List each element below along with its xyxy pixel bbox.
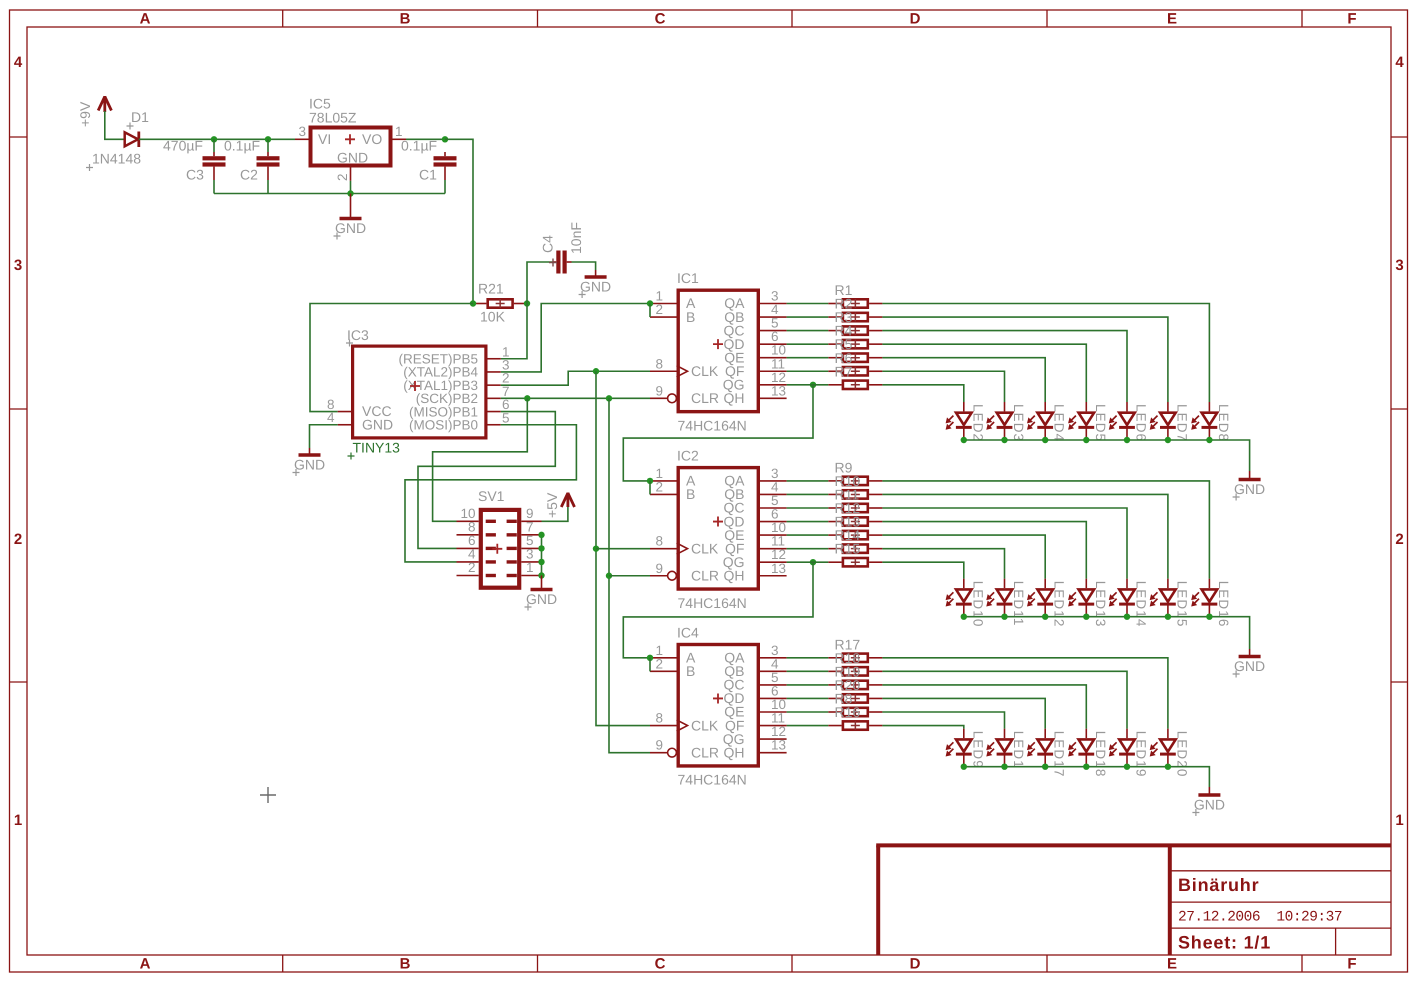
wire LED row1 cathode bus (964, 440, 1250, 471)
junction IC1 QG (810, 382, 816, 388)
svg-text:LED8: LED8 (1216, 404, 1231, 442)
wire R to LED row3 (882, 712, 1004, 729)
svg-text:10K: 10K (480, 309, 506, 325)
svg-text:2: 2 (335, 173, 350, 181)
wire Q to R (787, 711, 829, 713)
junction LED bus2 (1165, 614, 1171, 620)
junction SV1 rail (538, 559, 544, 565)
wire PB2 to IC1 CLR (501, 397, 650, 399)
svg-text:IC3: IC3 (347, 327, 369, 343)
svg-text:(MOSI)PB0: (MOSI)PB0 (409, 417, 478, 432)
svg-text:QH: QH (724, 390, 745, 406)
frame column labels top (140, 11, 1357, 28)
svg-text:C3: C3 (186, 167, 204, 183)
wire C3 to gnd bus (213, 180, 215, 194)
wire +5V rail down to R21 (445, 139, 473, 303)
wire Q to R (787, 657, 829, 659)
resistor R17 (828, 653, 882, 662)
svg-text:2: 2 (655, 656, 663, 671)
wire Q to R (787, 343, 829, 345)
wire C2 to gnd bus (267, 180, 269, 194)
svg-text:GND: GND (580, 279, 611, 295)
wire PB2 to SV1 pin10 (433, 398, 528, 521)
resistor R10 (828, 490, 882, 499)
svg-text:13: 13 (771, 561, 786, 576)
wire CLK to IC2 (596, 548, 650, 550)
svg-text:CLK: CLK (691, 363, 719, 379)
regulator IC5 78L05Z (295, 96, 406, 182)
svg-text:LED7: LED7 (1174, 404, 1189, 442)
svg-text:F: F (1347, 11, 1356, 28)
svg-text:E: E (1167, 956, 1177, 973)
svg-text:TINY13: TINY13 (353, 440, 401, 456)
wire R to LED row1 (882, 344, 1086, 402)
wire R to LED row1 (882, 385, 963, 402)
wire R to LED row2 (882, 522, 1086, 579)
svg-text:GND: GND (294, 457, 325, 473)
frame row labels right (1395, 54, 1404, 829)
svg-text:2: 2 (655, 479, 663, 494)
capacitor C1 (401, 138, 457, 183)
wire R to LED row3 (882, 658, 1168, 729)
svg-text:LED9: LED9 (970, 731, 985, 769)
junction LED bus2 (1042, 614, 1048, 620)
wire Q to R (787, 670, 829, 672)
wire CLK bus (596, 371, 650, 725)
resistor R12 (828, 517, 882, 526)
resistor R13 (828, 531, 882, 540)
capacitor C3 (163, 138, 226, 183)
ground LED row1 (1233, 471, 1266, 501)
svg-text:F: F (1347, 956, 1356, 973)
LED LED3 (986, 402, 1026, 442)
junction IC4 A (647, 655, 653, 661)
junction SV1 rail (538, 572, 544, 578)
junction LED bus1 (1042, 437, 1048, 443)
LED LED1 (986, 729, 1026, 769)
svg-text:LED19: LED19 (1134, 731, 1149, 778)
junction PB2 branch (524, 395, 530, 401)
resistor R1 (828, 299, 882, 308)
svg-text:CLR: CLR (691, 744, 719, 760)
svg-text:74HC164N: 74HC164N (678, 772, 747, 788)
wire D1 to IC5 VI (139, 138, 295, 140)
labels R17 group (835, 636, 861, 720)
junction CLR IC2 (606, 573, 612, 579)
ground LED row2 (1233, 649, 1266, 678)
svg-text:E: E (1167, 11, 1177, 28)
svg-text:Binäruhr: Binäruhr (1178, 875, 1259, 895)
svg-text:GND: GND (526, 591, 557, 607)
junction LED bus1 (1001, 437, 1007, 443)
svg-text:R21: R21 (478, 281, 504, 297)
wire R to LED row2 (882, 549, 1004, 579)
wire R to LED row3 (882, 698, 1045, 728)
LED LED8 (1191, 402, 1231, 442)
svg-text:+5V: +5V (544, 492, 560, 518)
junction LED bus2 (1124, 614, 1130, 620)
svg-text:A: A (140, 956, 151, 973)
LED LED7 (1150, 402, 1190, 442)
svg-text:GND: GND (337, 150, 368, 166)
svg-text:B: B (400, 956, 411, 973)
resistor R15 (828, 558, 882, 567)
wire R21 to C4 (527, 262, 552, 304)
svg-text:LED2: LED2 (970, 404, 985, 442)
svg-text:74HC164N: 74HC164N (678, 595, 747, 611)
LED LED5 (1068, 402, 1108, 442)
resistor R8 (828, 708, 882, 717)
wire Q to R (787, 561, 829, 563)
wire R to LED row3 (882, 685, 1086, 729)
wire R to LED row1 (882, 358, 1045, 402)
svg-text:LED11: LED11 (1011, 581, 1026, 627)
frame column labels bottom (140, 956, 1357, 973)
wire C4 to gnd (572, 262, 596, 270)
svg-text:D: D (910, 956, 921, 973)
wire R to LED row1 (882, 304, 1209, 403)
wire Q to R (787, 521, 829, 523)
svg-text:9: 9 (655, 738, 663, 753)
sheet origin cross (260, 787, 276, 803)
wire PB1 to SV1 pin6 (418, 412, 555, 549)
LED LED11 (986, 579, 1026, 627)
wire Q to R (787, 357, 829, 359)
resistor R20 (828, 694, 882, 703)
svg-text:1: 1 (1395, 812, 1403, 829)
svg-text:3: 3 (14, 257, 22, 274)
svg-text:4: 4 (1395, 54, 1404, 71)
junction LED bus2 (1083, 614, 1089, 620)
wire PB3 to IC1 CLK (501, 371, 650, 385)
svg-text:LED14: LED14 (1134, 581, 1149, 628)
svg-text:C2: C2 (240, 167, 258, 183)
svg-text:LED16: LED16 (1216, 581, 1231, 628)
resistor R3 (828, 326, 882, 335)
svg-text:1N4148: 1N4148 (92, 151, 141, 167)
svg-text:8: 8 (655, 356, 663, 371)
svg-text:CLR: CLR (691, 390, 719, 406)
wire Q to R (787, 330, 829, 332)
resistor R19 (828, 680, 882, 689)
labels R9-R15 (835, 459, 861, 556)
svg-text:C: C (655, 11, 666, 28)
wire C2 top (267, 139, 269, 152)
svg-text:GND: GND (362, 416, 393, 432)
junction LED bus1 (1206, 437, 1212, 443)
junction LED bus3 (1165, 764, 1171, 770)
diode D1 1N4148 (86, 109, 149, 171)
wire R21 to RESET (501, 304, 527, 359)
junction R21 right (524, 300, 530, 306)
shift register IC4 74HC164N (650, 624, 787, 787)
wire PB0 to SV1 pin4 (405, 425, 576, 562)
svg-text:LED1: LED1 (1011, 731, 1026, 769)
svg-text:B: B (686, 486, 695, 502)
svg-text:2: 2 (14, 531, 22, 548)
labels R1-R7 (835, 282, 853, 379)
junction R21 left (470, 300, 476, 306)
LED LED20 (1150, 729, 1190, 778)
svg-text:9: 9 (655, 383, 663, 398)
LED LED16 (1191, 579, 1231, 628)
junction CLK IC2 (593, 545, 599, 551)
wire gnd bus (214, 193, 445, 195)
microcontroller IC3 TINY13 (327, 327, 510, 460)
wire IC2 QG to IC4 A (623, 562, 813, 658)
LED LED2 (946, 402, 986, 442)
svg-text:VI: VI (318, 131, 331, 147)
supply +5V (544, 492, 575, 518)
junction LED bus3 (1001, 764, 1007, 770)
svg-text:2: 2 (655, 302, 663, 317)
LED LED12 (1027, 579, 1067, 628)
junction IC2 A (647, 478, 653, 484)
connector SV1 (457, 488, 542, 588)
svg-text:4: 4 (14, 54, 23, 71)
svg-text:CLK: CLK (691, 717, 719, 733)
svg-text:3: 3 (298, 124, 306, 139)
svg-text:B: B (400, 11, 411, 28)
svg-text:1: 1 (14, 812, 22, 829)
wire Q to R (787, 507, 829, 509)
junction LED bus3 (1124, 764, 1130, 770)
junction VIN/C3 (211, 136, 217, 142)
wire SV1 pin9 to +5V (542, 505, 568, 521)
LED LED4 (1027, 402, 1067, 442)
wire Q to R (787, 534, 829, 536)
junction LED bus1 (961, 437, 967, 443)
wire R to LED row3 (882, 726, 963, 729)
resistor R11 (828, 504, 882, 513)
svg-text:LED17: LED17 (1052, 731, 1067, 778)
svg-text:QH: QH (724, 567, 745, 583)
LED LED13 (1068, 579, 1108, 628)
svg-text:R16: R16 (835, 704, 861, 720)
wire IC1 A to B (649, 304, 651, 318)
svg-text:4: 4 (327, 410, 335, 425)
wire Q to R (787, 725, 829, 727)
svg-text:0.1µF: 0.1µF (401, 138, 437, 154)
wire SV1 gnd rail (541, 535, 543, 576)
svg-text:LED18: LED18 (1093, 731, 1108, 778)
resistor R18 (828, 667, 882, 676)
svg-text:8: 8 (655, 711, 663, 726)
svg-text:SV1: SV1 (478, 488, 505, 504)
wire Q to R (787, 548, 829, 550)
svg-text:D1: D1 (131, 109, 149, 125)
svg-text:74HC164N: 74HC164N (678, 417, 747, 433)
junction LED bus1 (1124, 437, 1130, 443)
svg-text:C4: C4 (540, 235, 556, 253)
wire IC3 GND (310, 425, 338, 448)
svg-text:10nF: 10nF (568, 222, 584, 254)
resistor R6 (828, 367, 882, 376)
svg-text:Sheet: 1/1: Sheet: 1/1 (1178, 933, 1271, 953)
junction VIN/C2 (265, 136, 271, 142)
svg-text:IC1: IC1 (677, 270, 699, 286)
svg-text:LED4: LED4 (1052, 404, 1067, 442)
junction LED bus1 (1165, 437, 1171, 443)
svg-text:CLR: CLR (691, 567, 719, 583)
wire PB4 data to IC1 A (501, 304, 650, 372)
wire R to LED row1 (882, 371, 1004, 402)
junction CLK bus top (593, 368, 599, 374)
wire IC5 VO to C1 (406, 138, 445, 140)
svg-text:VO: VO (362, 131, 382, 147)
wire IC1 QG to IC2 A (623, 385, 813, 481)
svg-text:8: 8 (655, 534, 663, 549)
svg-text:IC4: IC4 (677, 624, 699, 640)
svg-text:1: 1 (526, 560, 534, 575)
svg-text:QH: QH (724, 744, 745, 760)
junction LED bus3 (1083, 764, 1089, 770)
junction LED bus2 (961, 614, 967, 620)
ground LED row3 (1192, 787, 1225, 816)
wire Q to R (787, 480, 829, 482)
junction IC2 QG (810, 559, 816, 565)
junction LED bus1 (1083, 437, 1089, 443)
svg-text:GND: GND (1234, 481, 1265, 497)
wire R to LED row2 (882, 535, 1045, 579)
svg-text:B: B (686, 663, 695, 679)
svg-text:LED6: LED6 (1134, 404, 1149, 442)
svg-text:GND: GND (335, 220, 366, 236)
junction LED bus3 (961, 764, 967, 770)
resistor R14 (828, 544, 882, 553)
capacitor C4 10nF (540, 222, 585, 273)
wire C1 to gnd bus (444, 180, 446, 194)
wire C3 top (213, 139, 215, 152)
svg-text:27.12.2006 10:29:37: 27.12.2006 10:29:37 (1178, 910, 1342, 926)
svg-text:R15: R15 (835, 541, 861, 557)
svg-text:5: 5 (502, 410, 510, 425)
wire R to LED row1 (882, 317, 1168, 402)
svg-text:3: 3 (1395, 257, 1403, 274)
wire Q to R (787, 684, 829, 686)
junction gnd bus (347, 190, 353, 196)
LED LED10 (946, 579, 986, 628)
resistor R4 (828, 340, 882, 349)
ground main (334, 194, 367, 240)
junction LED bus2 (1206, 614, 1212, 620)
svg-text:0.1µF: 0.1µF (224, 138, 260, 154)
wire LED row2 cathode bus (964, 617, 1250, 649)
svg-text:+9V: +9V (77, 101, 93, 127)
ground C4 (579, 270, 612, 298)
resistor R9 (828, 476, 882, 485)
wire R to LED row2 (882, 562, 963, 579)
wire IC2 A to B (649, 481, 651, 495)
shift register IC1 74HC164N (650, 270, 787, 433)
title block (876, 845, 1391, 955)
LED LED17 (1027, 729, 1067, 778)
junction IC1 A (647, 300, 653, 306)
resistor R7 (828, 380, 882, 389)
resistor R5 (828, 353, 882, 362)
wire Q to R (787, 384, 829, 386)
svg-text:B: B (686, 309, 695, 325)
svg-text:LED13: LED13 (1093, 581, 1108, 628)
wire Q to R (787, 493, 829, 495)
LED LED6 (1109, 402, 1149, 442)
svg-text:D: D (910, 11, 921, 28)
svg-text:2: 2 (1395, 531, 1403, 548)
svg-text:LED10: LED10 (970, 581, 985, 628)
resistor R2 (828, 313, 882, 322)
svg-text:GND: GND (1234, 658, 1265, 674)
resistor R21 10K (473, 281, 527, 325)
svg-text:9: 9 (655, 561, 663, 576)
svg-text:LED20: LED20 (1174, 731, 1189, 778)
wire CLR bus (609, 398, 650, 752)
shift register IC2 74HC164N (650, 447, 787, 610)
wire Q to R (787, 316, 829, 318)
wire +5V to IC3 VCC (310, 304, 473, 412)
wire +9V to D1 (105, 111, 125, 139)
svg-text:A: A (140, 11, 151, 28)
svg-text:13: 13 (771, 383, 786, 398)
svg-text:C1: C1 (419, 167, 437, 183)
wire R to LED row3 (882, 671, 1127, 728)
wire Q to R (787, 303, 829, 305)
svg-text:78L05Z: 78L05Z (309, 110, 357, 126)
junction SV1 rail (538, 545, 544, 551)
svg-text:470µF: 470µF (163, 138, 203, 154)
svg-text:LED15: LED15 (1174, 581, 1189, 628)
wire IC5 GND to bus (350, 181, 352, 194)
frame row labels left (14, 54, 23, 829)
wire R to LED row2 (882, 494, 1168, 578)
junction VOUT/C1 (442, 136, 448, 142)
wire CLR to IC2 (609, 575, 650, 577)
svg-text:CLK: CLK (691, 540, 719, 556)
svg-text:IC2: IC2 (677, 447, 699, 463)
svg-text:C: C (655, 956, 666, 973)
svg-text:2: 2 (468, 560, 476, 575)
wire R to LED row2 (882, 508, 1127, 579)
LED LED9 (946, 729, 986, 769)
LED LED18 (1068, 729, 1108, 778)
wire IC4 A to B (649, 658, 651, 672)
wire R to LED row1 (882, 331, 1127, 402)
supply +9V (77, 96, 111, 127)
wire Q to R (787, 370, 829, 372)
svg-text:R7: R7 (835, 363, 853, 379)
junction CLR bus top (606, 395, 612, 401)
svg-text:13: 13 (771, 738, 786, 753)
svg-text:LED5: LED5 (1093, 404, 1108, 442)
resistor R16 (828, 721, 882, 730)
junction SV1 rail (538, 532, 544, 538)
LED LED19 (1109, 729, 1149, 778)
ground IC3 (293, 448, 326, 476)
wire Q to R (787, 697, 829, 699)
svg-text:GND: GND (1194, 797, 1225, 813)
junction LED bus2 (1001, 614, 1007, 620)
LED LED15 (1150, 579, 1190, 628)
capacitor C2 (224, 138, 280, 183)
wire R to LED row2 (882, 481, 1209, 579)
wire LED row3 cathode bus (964, 767, 1210, 787)
svg-text:LED3: LED3 (1011, 404, 1026, 442)
svg-text:LED12: LED12 (1052, 581, 1067, 628)
ground SV1 (525, 576, 558, 611)
junction LED bus3 (1042, 764, 1048, 770)
LED LED14 (1109, 579, 1149, 628)
